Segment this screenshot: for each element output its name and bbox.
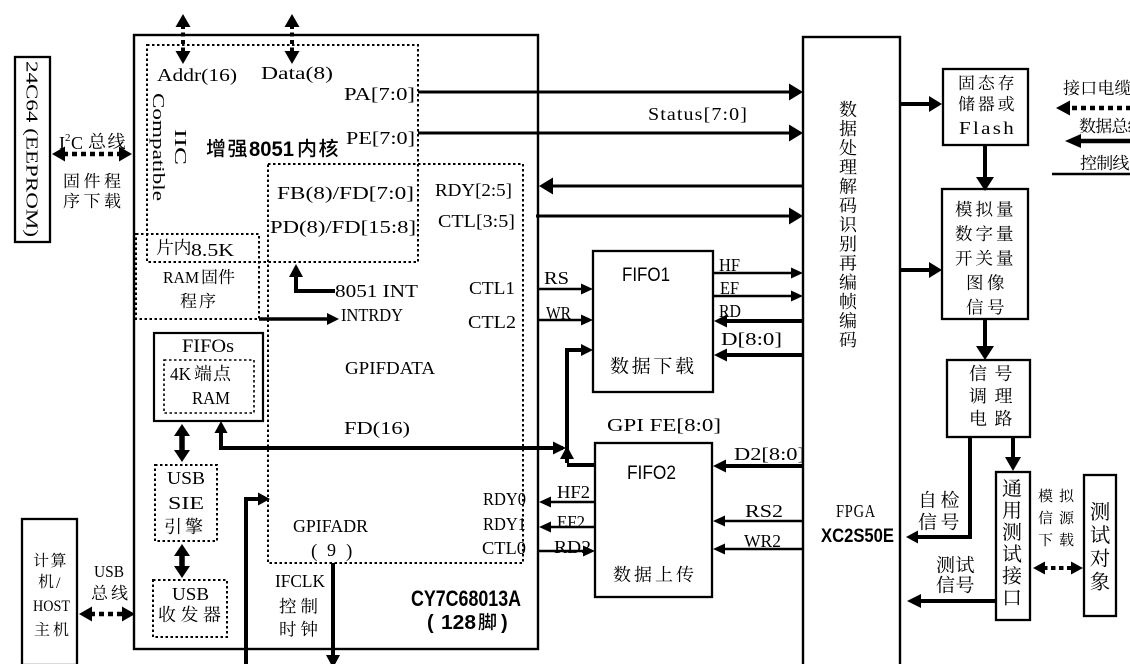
wire SIE-transceiver double arrow (179, 554, 185, 568)
wire self-check signal elbow arrow (916, 438, 970, 537)
svg-text:): ) (346, 541, 352, 562)
wire test interface - test object dashed arrow (1043, 566, 1073, 570)
block USB transceiver (dotted) (153, 580, 227, 637)
block solid-state memory / Flash (943, 69, 1028, 145)
svg-text:RAM: RAM (192, 388, 230, 408)
wire flash to analog box arrow (983, 144, 987, 179)
svg-text:8051 INT: 8051 INT (335, 281, 418, 301)
wire FD branch to FIFO1 and FIFO2 (567, 350, 581, 463)
svg-text:8.5K: 8.5K (191, 240, 234, 260)
svg-text:(: ( (311, 541, 317, 562)
svg-text:USB: USB (167, 468, 205, 488)
svg-text:RDY1: RDY1 (483, 514, 526, 534)
wire 8051 INT elbow arrow up (296, 276, 335, 291)
svg-text:2: 2 (65, 132, 71, 144)
label enhanced 8051 core (207, 139, 225, 158)
wire FPGA to flash arrow (900, 102, 931, 106)
svg-text:128: 128 (441, 612, 476, 634)
wire IFCLK down arrow (331, 563, 335, 656)
label control lines (1080, 155, 1096, 171)
label data bus (1080, 118, 1096, 134)
svg-text:CTL1: CTL1 (469, 278, 515, 298)
block FIFO2 (595, 443, 712, 597)
svg-text:FIFO1: FIFO1 (622, 265, 670, 286)
wire CTL[3:5] bus (536, 215, 791, 218)
svg-text:Data(8): Data(8) (261, 63, 333, 84)
block analog/digital/switch/image signals (942, 189, 1028, 319)
svg-text:FD(16): FD(16) (344, 418, 410, 439)
svg-text:CTL[3:5]: CTL[3:5] (438, 211, 515, 231)
svg-text:HOST: HOST (33, 598, 70, 615)
svg-text:4K: 4K (170, 364, 191, 384)
label firmware download (65, 173, 79, 188)
svg-text:GPIFADR: GPIFADR (293, 516, 368, 536)
wire data bus arrow (1079, 139, 1130, 144)
svg-text:PD(8)/FD[15:8]: PD(8)/FD[15:8] (270, 217, 416, 238)
wire GPIFADR entry elbow arrow (246, 499, 258, 664)
wire interface cable dashed arrow (1068, 106, 1130, 111)
svg-text:HF2: HF2 (557, 482, 590, 502)
svg-text:D2[8:0]: D2[8:0] (734, 444, 805, 464)
block USB SIE engine (dotted) (155, 465, 217, 541)
svg-text:Flash: Flash (959, 118, 1016, 138)
svg-text:RDY[2:5]: RDY[2:5] (435, 180, 512, 200)
svg-text:GPI FE[8:0]: GPI FE[8:0] (607, 415, 721, 435)
svg-text:USB: USB (94, 562, 124, 581)
svg-text:PA[7:0]: PA[7:0] (344, 84, 415, 104)
wire test signal arrow (937, 556, 954, 573)
svg-text:FB(8)/FD[7:0]: FB(8)/FD[7:0] (277, 183, 414, 204)
svg-text:XC2S50E: XC2S50E (821, 526, 894, 547)
wire FPGA to analog box arrow (900, 268, 931, 272)
block FIFOs (154, 333, 263, 421)
svg-text:IIC: IIC (171, 129, 190, 165)
svg-text:INTRDY: INTRDY (341, 305, 403, 325)
block GPIF (dotted) (268, 164, 523, 563)
wire RDY[2:5] bus (left arrow) (551, 185, 803, 188)
svg-text:FIFOs: FIFOs (182, 336, 234, 357)
svg-text:): ) (501, 612, 508, 634)
svg-text:CY7C68013A: CY7C68013A (411, 586, 521, 611)
svg-text:RS: RS (544, 268, 569, 288)
wire FD bus to FIFOs arrow (223, 446, 563, 450)
svg-text:FIFO2: FIFO2 (627, 463, 676, 484)
wire INTRDY arrow (259, 317, 329, 321)
svg-text:RAM: RAM (163, 268, 199, 287)
svg-text:CTL0: CTL0 (482, 538, 526, 558)
svg-text:IFCLK: IFCLK (275, 571, 325, 591)
svg-text:C: C (71, 133, 83, 153)
svg-text:Status[7:0]: Status[7:0] (648, 104, 748, 124)
svg-text:D[8:0]: D[8:0] (721, 329, 782, 349)
block FPGA data processing (803, 37, 900, 664)
svg-text:(: ( (427, 612, 434, 634)
wire Addr dashed arrow (181, 25, 185, 53)
wire Data dashed arrow (290, 25, 294, 53)
svg-text:RS2: RS2 (745, 501, 783, 521)
block universal test interface (996, 472, 1030, 620)
svg-text:EF2: EF2 (557, 512, 585, 532)
block 4K endpoint RAM (dotted) (164, 360, 254, 413)
svg-text:9: 9 (327, 540, 336, 560)
wire analog box to signal conditioning arrow (983, 319, 987, 348)
block test object (1084, 475, 1116, 616)
svg-text:Compatible: Compatible (149, 93, 168, 201)
block host computer (22, 519, 77, 664)
svg-text:GPIFDATA: GPIFDATA (345, 358, 435, 378)
svg-text:8051: 8051 (249, 138, 294, 161)
svg-text:USB: USB (172, 584, 209, 604)
svg-text:SIE: SIE (168, 493, 204, 513)
svg-text:/: / (56, 575, 61, 592)
svg-text:FPGA: FPGA (836, 501, 876, 521)
wire USB dashed bus host-chip (90, 612, 124, 617)
block chip CY7C68013A outline (134, 35, 538, 649)
wire FIFOs-SIE double arrow (179, 434, 185, 452)
block 8051 core (dotted) (147, 45, 418, 262)
svg-text:Addr(16): Addr(16) (157, 65, 237, 86)
wire I2C dashed bus EEPROM-chip (63, 152, 121, 157)
wire control line (1052, 173, 1130, 176)
label interface cable (1063, 80, 1079, 96)
svg-text:PE[7:0]: PE[7:0] (346, 128, 415, 148)
block signal conditioning circuit (947, 360, 1030, 437)
wire conditioning to test interface arrow (1011, 438, 1015, 459)
svg-text:RDY0: RDY0 (483, 489, 526, 509)
block on-chip 8.5K RAM (dotted) (136, 234, 259, 319)
label IIC Compatible (rotated) (149, 93, 190, 201)
svg-text:24C64 (EEPROM): 24C64 (EEPROM) (23, 61, 42, 237)
svg-text:CTL2: CTL2 (468, 312, 516, 332)
block 24C64 EEPROM (15, 57, 50, 242)
block FIFO1 (593, 251, 713, 392)
label analog source download (1038, 489, 1052, 503)
